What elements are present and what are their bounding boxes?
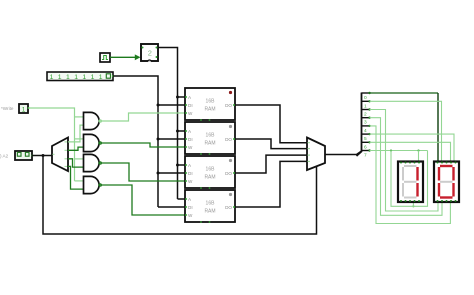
RAM U2 [185,122,235,155]
splitter SP1 [357,92,371,159]
svg-text:RAM: RAM [204,141,215,147]
svg-text:7: 7 [364,153,367,159]
svg-text:16B: 16B [206,201,216,207]
svg-text:W: W [188,111,193,116]
wire bit7 loop around DS1 [391,151,428,207]
wire DO2 to mux [235,139,307,149]
RAM U1 [185,88,235,121]
svg-text:DI: DI [188,103,193,108]
svg-text:0: 0 [364,95,367,101]
svg-text:1: 1 [50,74,54,81]
wire address bus to decoder [32,155,52,157]
wire dec out3 [68,166,84,189]
svg-text:1: 1 [91,74,95,81]
mux M1 [307,138,325,171]
svg-text:W: W [188,145,193,150]
svg-text:1: 1 [364,103,367,109]
input SW_ADDR value 00 [15,151,34,160]
wire bit7 tap to DS1 bottom [412,202,414,206]
node abus junctions [176,96,179,167]
svg-text:2: 2 [364,112,367,118]
wire G2 out to RAM2 W [99,142,185,147]
svg-text:DO: DO [225,205,232,210]
svg-text:4: 4 [364,128,367,134]
node bit7 junctions [390,149,392,151]
svg-text:W: W [188,179,193,184]
node addr junction [42,154,45,157]
wire G3 out to RAM3 W [99,162,185,181]
svg-text:16B: 16B [206,133,216,139]
svg-text:1: 1 [74,74,78,81]
wire bit3 [370,118,443,216]
wire mux select (bottom rail) [43,156,317,235]
svg-text:) A2: ) A2 [0,154,9,159]
wire G4 out to RAM4 W [99,184,185,215]
wire clock to counter [110,54,141,60]
and gate G2 [84,134,100,151]
input SW_WRITE value 1 [19,104,30,113]
and gate G3 [84,154,100,171]
RAM U4 [185,190,235,223]
and gate G4 [84,176,100,193]
wire bit6 [370,142,451,161]
svg-text:6: 6 [364,144,367,150]
svg-text:16B: 16B [206,99,216,105]
wire bit0 [370,92,439,94]
wire bit1 [370,101,442,161]
svg-text:DO: DO [225,137,232,142]
svg-text:DO: DO [225,103,232,108]
wire write (to AND gates) [29,108,84,181]
svg-text:1: 1 [58,74,62,81]
svg-text:RAM: RAM [204,175,215,181]
wire bit2 [370,110,439,212]
svg-text:16B: 16B [206,167,216,173]
wire DIP data bus [113,76,185,207]
wire DO4 to mux [235,161,307,207]
counter CNT1 value 2 [141,44,158,62]
RAM U3 [185,156,235,189]
wire bit5 [370,134,455,161]
and gate G1 [84,112,100,129]
svg-text:DI: DI [188,137,193,142]
svg-text:2: 2 [148,48,152,57]
clock CLK1 [100,53,110,62]
svg-text:5: 5 [364,136,367,142]
wire mux out to splitter [325,151,362,155]
svg-text:3: 3 [364,120,367,126]
wire counter address bus [158,48,185,200]
svg-text:1: 1 [22,106,26,113]
7-segment display DS1 showing 1 [398,162,423,203]
wire bit7 [370,150,428,152]
svg-text:RAM: RAM [204,209,215,215]
wire G1 out to RAM1 W [99,113,185,122]
wire dec out0 [68,125,84,142]
svg-text:DI: DI [188,171,193,176]
node dbus junctions [157,104,160,175]
input DIP 11111110 [47,72,114,81]
svg-text:1: 1 [82,74,86,81]
svg-text:W: W [188,213,193,218]
7-segment display DS2 showing 0 [434,162,459,203]
svg-text:DO: DO [225,171,232,176]
svg-text:RAM: RAM [204,107,215,113]
svg-text:*Write: *Write [1,106,14,111]
svg-text:DI: DI [188,205,193,210]
wire dec out1 [68,147,84,150]
decoder DEC1 [52,138,68,172]
svg-text:1: 1 [66,74,70,81]
wire bit7 drop to DS1 top [418,151,420,162]
wire DO1 to mux [235,105,307,143]
wire dec out2 [68,159,84,167]
svg-text:1: 1 [99,74,103,81]
wire bit4 [370,126,451,224]
wire DO3 to mux [235,155,307,173]
